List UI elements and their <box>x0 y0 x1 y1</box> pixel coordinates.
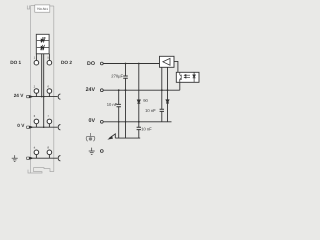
wire: stub LED box to terminal 5 <box>48 54 50 61</box>
wire: 10nF branch (24V to 0V) <box>118 90 120 138</box>
terminal earth (4) <box>34 150 39 155</box>
wire: 0V rail <box>103 121 171 123</box>
svg-text:750-501: 750-501 <box>37 7 49 11</box>
driver box U1 <box>160 56 175 67</box>
LED D1 (status DO1) <box>37 37 49 42</box>
wire: earth rail <box>115 137 140 139</box>
housing top edge <box>31 5 54 8</box>
wire: 24V row <box>32 93 58 96</box>
capacitor 10nF (0V to earth) <box>137 127 141 129</box>
latch notch top-left <box>27 6 29 10</box>
opto light arrows <box>184 74 190 78</box>
earth symbol left <box>12 155 18 161</box>
svg-text:0V: 0V <box>89 118 96 124</box>
opto phototransistor <box>180 72 181 82</box>
opto LED <box>193 72 196 82</box>
optocoupler box U2 <box>176 72 199 82</box>
power jumper blade contact 24V row <box>27 95 32 97</box>
terminal earth (8) <box>47 150 52 155</box>
capacitor 10nF (driver) <box>160 109 164 111</box>
svg-text:24 V: 24 V <box>14 93 25 98</box>
svg-text:90: 90 <box>143 98 148 103</box>
arrowhead earth connection <box>107 136 113 140</box>
terminal 24V (2) <box>34 89 39 94</box>
svg-text:DO 1: DO 1 <box>10 60 21 65</box>
right schematic labels <box>86 61 96 124</box>
wire: stub LED box to terminal 1 <box>35 54 37 61</box>
wire: 270uF line continues 24V to earth rail <box>125 90 127 138</box>
terminal DO1 (1) <box>34 60 39 65</box>
power jumper blade contact earth row <box>27 157 32 159</box>
wire: 24V rail <box>103 89 180 91</box>
svg-text:24V: 24V <box>86 87 96 93</box>
wire: internal bus line B <box>43 54 45 127</box>
wire: 10nF branch below 0V <box>138 122 140 138</box>
driver triangle <box>163 58 170 65</box>
junction dots <box>41 63 169 128</box>
svg-text:10 nF: 10 nF <box>145 108 156 113</box>
capacitor 270uF <box>123 76 128 78</box>
LED box <box>36 34 49 54</box>
node 0V <box>100 120 103 123</box>
power jumper spring contact 24V row <box>58 94 60 99</box>
LED D2 (status DO2) <box>37 45 49 50</box>
earth symbol lower <box>89 148 95 155</box>
wire: earth rail riser + arrow <box>109 134 115 138</box>
capacitor 10nF (24V-0V) <box>117 104 121 106</box>
power jumper blade contact 0V row <box>27 126 32 128</box>
power jumper spring contact earth row <box>58 156 60 161</box>
pin numbers <box>34 55 50 149</box>
node 24V <box>100 89 103 92</box>
node DO <box>100 62 103 65</box>
housing left edge <box>30 6 32 174</box>
svg-text:0 V: 0 V <box>17 123 25 128</box>
zener diode <box>137 100 140 103</box>
housing bottom foot <box>28 168 54 173</box>
svg-text:10 nF: 10 nF <box>141 127 152 132</box>
order number box 750-501 <box>35 5 50 12</box>
svg-text:DO: DO <box>87 61 95 67</box>
svg-text:DO 2: DO 2 <box>61 60 72 65</box>
power jumper spring contact 0V row <box>58 125 60 130</box>
wire: 270uF branch (DO to 24V) <box>125 64 127 91</box>
wire: zener branch (DO rail down) <box>138 64 140 122</box>
diode at driver <box>166 100 169 103</box>
module outline (housing, light gray) <box>27 6 54 174</box>
wire: internal bus line A <box>41 54 43 97</box>
wire: driver to optocoupler <box>174 61 178 72</box>
node shield <box>100 150 103 153</box>
terminal 24V (6) <box>47 89 52 94</box>
component value labels <box>107 74 156 132</box>
wire: 0V row <box>32 124 58 128</box>
wire: diode branch at driver <box>167 67 169 122</box>
terminal 0V (7) <box>47 119 52 124</box>
svg-text:270µF: 270µF <box>111 74 123 79</box>
terminal DO2 (5) <box>47 60 52 65</box>
svg-text:10 nF: 10 nF <box>107 102 118 107</box>
shield clamp symbol <box>86 133 94 141</box>
wire: optocoupler to 24V rail <box>179 82 181 90</box>
wire: earth row <box>32 155 58 159</box>
terminal 0V (3) <box>34 119 39 124</box>
labels left column <box>10 60 72 128</box>
housing right edge <box>53 6 55 172</box>
wire: DO rail <box>103 63 159 65</box>
wire: 10nF branch at driver (24V to 0V) <box>161 67 163 122</box>
